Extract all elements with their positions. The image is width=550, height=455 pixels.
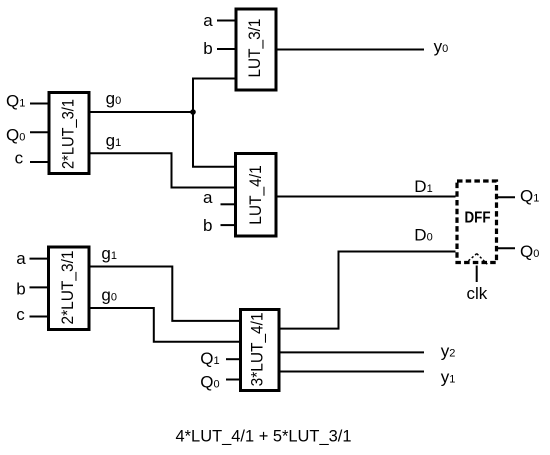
- svg-text:c: c: [15, 148, 24, 167]
- svg-text:a: a: [203, 188, 213, 207]
- wire U2 input stub a: [217, 20, 235, 22]
- clock edge triangle of U6: [465, 254, 488, 265]
- wire U6 output stub Q0: [498, 247, 515, 249]
- svg-text:LUT_3/1: LUT_3/1: [245, 19, 264, 78]
- wire net g1 (lower) from U4 to U5: [90, 267, 241, 321]
- wire U3 input stub b: [221, 224, 235, 226]
- block U5 3*LUT_4/1 (bottom): [241, 310, 280, 391]
- wire U3 input stub a: [221, 203, 235, 205]
- block U2 LUT_3/1 (top): [236, 9, 276, 90]
- wire net g0 from U1 to junction: [89, 111, 193, 113]
- wire U5 input stub Q0: [226, 379, 239, 381]
- wire net g0 (lower) from U4 to U5: [90, 308, 241, 342]
- wire g0 branch up to U2 input: [193, 79, 235, 113]
- svg-text:b: b: [203, 39, 212, 58]
- svg-text:2*LUT_3/1: 2*LUT_3/1: [58, 251, 77, 325]
- svg-text:3*LUT_4/1: 3*LUT_4/1: [248, 312, 267, 386]
- svg-text:b: b: [203, 216, 212, 235]
- wire U1 input stub Q1: [30, 103, 48, 105]
- wire U1 input stub c: [30, 161, 48, 163]
- wire net g1 from U1 to U3 input: [89, 153, 236, 187]
- wire U4 input stub b: [30, 286, 48, 288]
- wire g0 branch down to U3 input: [193, 112, 236, 167]
- wire output net y0: [278, 49, 425, 51]
- svg-text:4*LUT_4/1 + 5*LUT_3/1: 4*LUT_4/1 + 5*LUT_3/1: [176, 428, 352, 446]
- junction node g0: [190, 109, 196, 115]
- wire U4 input stub a: [30, 258, 48, 260]
- wire net D0 from U5 to DFF: [279, 252, 456, 329]
- flip-flop U6 DFF (dashed): [457, 181, 497, 263]
- svg-text:DFF: DFF: [465, 209, 491, 226]
- wire U2 input stub b: [217, 48, 235, 50]
- svg-text:2*LUT_3/1: 2*LUT_3/1: [59, 99, 78, 169]
- svg-text:c: c: [16, 305, 25, 324]
- wire output net y2: [279, 351, 424, 353]
- svg-text:b: b: [16, 280, 25, 299]
- block U3 LUT_4/1 (middle): [236, 154, 277, 237]
- svg-text:a: a: [203, 11, 213, 30]
- svg-text:LUT_4/1: LUT_4/1: [246, 165, 265, 225]
- block U1 2*LUT_3/1 (top-left): [49, 93, 89, 174]
- wire output net y1: [279, 371, 424, 373]
- wire net D1 from U3 to DFF: [278, 196, 456, 198]
- block U4 2*LUT_3/1 (bottom-left): [49, 247, 90, 330]
- wire U4 input stub c: [30, 316, 48, 318]
- svg-text:a: a: [16, 249, 26, 268]
- wire clk stub: [476, 266, 478, 283]
- wire U6 output stub Q1: [498, 196, 515, 198]
- wire U5 input stub Q1: [226, 358, 239, 360]
- svg-text:clk: clk: [467, 284, 488, 303]
- wire U1 input stub Q0: [30, 131, 48, 133]
